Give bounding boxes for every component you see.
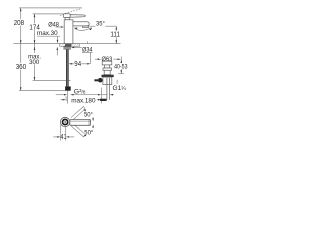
dimension 41 left segment: [53, 136, 57, 138]
slab left hatch: [60, 44, 66, 47]
svg-text:G1¼: G1¼: [113, 85, 127, 92]
max30 lower arrow tail: [56, 50, 58, 56]
bottom-left extension V1 faucet connection: [67, 91, 69, 104]
arrow 208 up: [20, 8, 22, 11]
pivot rod: [94, 79, 98, 81]
extension tick 40-53 bottom: [118, 73, 124, 75]
handle top view: [60, 106, 90, 137]
handle circle: [60, 117, 69, 126]
label 40-53: [114, 64, 128, 71]
arrow 94 left: [69, 63, 72, 65]
swivel arc 35deg: [74, 28, 91, 31]
leader G1 1/4 vertical: [116, 80, 118, 84]
svg-text:360: 360: [16, 64, 26, 71]
pop-up waste: [94, 61, 113, 101]
row B right segment: [97, 99, 98, 101]
arrow rowA right end at waste: [98, 94, 101, 96]
phantom upper line1: [71, 106, 84, 117]
plug stem: [104, 65, 109, 68]
arrow rowB right end: [98, 99, 101, 101]
lever knob: [64, 14, 71, 18]
label 50 deg lower: [84, 128, 94, 136]
lever end cap: [88, 120, 90, 126]
dimension 94 left segment: [69, 63, 74, 65]
arrow rowA stub right-pointing: [64, 94, 67, 96]
bottom-left tick V2: [65, 96, 67, 101]
arrow 50 upper at lever: [92, 118, 94, 121]
dimension 94 right segment: [81, 63, 87, 65]
svg-text:94: 94: [74, 61, 81, 68]
phantom upper line2: [73, 109, 85, 119]
row A stub left: [56, 94, 64, 96]
phantom lower tip: [84, 134, 85, 137]
svg-text:Ø34: Ø34: [82, 46, 93, 53]
arrow 360 down: [20, 87, 22, 90]
leader 50 lower vertical: [92, 126, 94, 129]
arrow rowA left-pointing inner: [70, 94, 73, 96]
arrow max30 up below slab: [57, 47, 59, 50]
arrow diameter63 right end: [118, 58, 121, 60]
arrow 50 lower at phantom: [83, 134, 86, 136]
leader diameter48: [56, 26, 62, 28]
dimension diameter63 right segment: [113, 58, 118, 60]
dimension diameter63 left segment: [95, 58, 98, 60]
svg-text:300: 300: [29, 59, 39, 66]
handle dot: [64, 121, 65, 122]
arrow diameter48 right: [61, 26, 64, 28]
leader vertical max.30: [57, 36, 59, 40]
waste thread: [103, 77, 112, 85]
handle ring: [63, 119, 68, 124]
labels: [13, 19, 128, 141]
tick aerator at deck: [86, 41, 88, 43]
svg-text:111: 111: [110, 32, 120, 39]
waste tube: [104, 70, 110, 74]
arrow max300 up below deck: [34, 47, 36, 50]
extension line aerator level 111 right segment: [105, 25, 116, 27]
arrow 50 lower at lever: [92, 125, 94, 128]
deck line: [14, 43, 121, 45]
dimension vertical 208/360: [20, 8, 22, 91]
arrow 111 up: [116, 26, 118, 29]
label 174: [29, 24, 41, 32]
dimension vertical 40-53 upper: [120, 57, 122, 64]
extension line 360 bottom: [19, 90, 65, 92]
mounting nut: [63, 46, 71, 49]
waste nut dark: [102, 75, 114, 77]
slab right hatch: [71, 44, 79, 47]
phantom upper tip: [84, 106, 85, 109]
arrow swivel right: [89, 28, 92, 31]
row A tail right of tailpipe: [113, 94, 114, 96]
arrow max30 down: [57, 40, 59, 43]
faucet front view: [60, 9, 89, 44]
waste extension V3: [100, 88, 102, 104]
row A connector V3 to tailpipe: [101, 94, 107, 96]
svg-text:208: 208: [14, 20, 24, 27]
arrow 50 upper at phantom: [83, 109, 86, 111]
leader 50 upper vertical: [92, 116, 94, 119]
extension line max300 bottom: [33, 79, 71, 81]
svg-text:Ø63: Ø63: [102, 56, 113, 63]
arrow 40-53 up: [121, 60, 123, 63]
arrow diameter63 into text: [98, 58, 101, 60]
supply hoses: [66, 49, 69, 86]
extension line lever top 174: [33, 13, 64, 15]
extension 41 right: [65, 127, 67, 141]
leader diameter34: [73, 46, 82, 48]
dimension 41 right segment: [70, 136, 75, 138]
dashed knob bit: [60, 14, 63, 16]
label max 300: [28, 53, 42, 66]
dimension vertical 111: [115, 26, 117, 43]
arrow 94 right: [87, 63, 90, 65]
extension line aerator level 111 left segment: [90, 25, 96, 27]
svg-text:41: 41: [60, 134, 66, 141]
svg-text:35°: 35°: [96, 19, 105, 27]
svg-text:max.30: max.30: [37, 30, 58, 37]
aerator: [83, 26, 89, 28]
plug cap: [102, 61, 112, 65]
lever arm: [70, 15, 85, 18]
deck slab hatched: [60, 44, 80, 47]
label 111: [110, 31, 121, 39]
arrow 41 right inward: [66, 136, 69, 138]
svg-text:50°: 50°: [84, 110, 93, 118]
cartridge neck: [65, 18, 69, 20]
underline max.30: [37, 35, 60, 37]
shank through deck: [65, 44, 71, 47]
pivot ball: [98, 78, 103, 83]
tailpipe left: [106, 78, 108, 100]
arrow rowB stub right-pointing: [63, 99, 66, 101]
waste flange: [103, 68, 112, 70]
svg-text:40-53: 40-53: [114, 64, 128, 71]
arrow 41 left inward: [57, 136, 60, 138]
body: [64, 20, 73, 44]
phantom lower line2: [73, 124, 85, 134]
leader 50 lower stub: [84, 133, 87, 135]
arrow swivel left: [74, 28, 77, 30]
label 208: [13, 19, 25, 27]
row B stub left: [60, 99, 63, 101]
arrowheads: [20, 8, 122, 138]
tailpipe right: [108, 78, 110, 100]
svg-text:Ø48: Ø48: [48, 22, 59, 29]
spout: [73, 22, 89, 26]
arrow 111 down: [116, 40, 118, 43]
extension line open-lever top 208: [19, 7, 82, 9]
leader 50 upper stub: [84, 111, 87, 113]
arrow 40-53 down: [121, 70, 123, 73]
dimension vertical 174/max300: [34, 14, 36, 81]
label 360: [15, 63, 27, 71]
arrow 208 down deck: [20, 40, 22, 43]
arrow 174 up: [34, 14, 36, 17]
svg-text:50°: 50°: [84, 128, 93, 136]
svg-text:max.180: max.180: [71, 97, 95, 104]
extension vertical spout tip 94: [89, 52, 91, 63]
lever inner line: [70, 120, 91, 122]
extension 41 left: [60, 124, 62, 140]
dashed open lever: [65, 9, 81, 14]
arrow diameter34 left: [71, 47, 74, 49]
label 41: [60, 134, 66, 141]
dimension vertical 40-53 lower: [120, 69, 122, 74]
arrow 174 down deck: [34, 40, 36, 43]
label 50 deg upper: [84, 110, 94, 118]
underline diameter34: [82, 51, 93, 53]
lever top view: [70, 120, 91, 126]
arrow rowA pointing left at tailpipe: [110, 94, 113, 96]
rod clamp: [100, 99, 107, 101]
G3/8 connection end: [65, 86, 71, 90]
row A inner line: [73, 94, 97, 96]
arrow max300 down: [34, 77, 36, 80]
phantom lower line1: [71, 126, 84, 137]
